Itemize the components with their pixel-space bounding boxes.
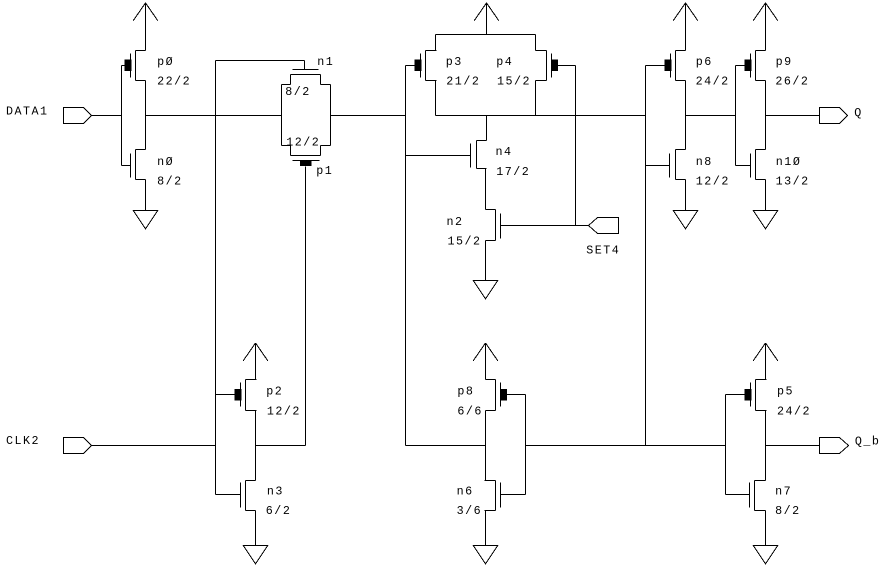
svg-text:12/2: 12/2 xyxy=(286,136,320,150)
power vdd p9 xyxy=(753,3,778,51)
ground n0 xyxy=(133,211,158,229)
svg-text:pØ: pØ xyxy=(157,55,174,69)
node left terminal of pass gate xyxy=(281,85,283,146)
transistor p4 xyxy=(536,51,576,81)
ground n2 xyxy=(473,281,498,299)
transistor n7 xyxy=(726,481,766,511)
power vdd p0 xyxy=(133,3,158,51)
svg-text:p6: p6 xyxy=(696,55,713,69)
transistor n10 xyxy=(736,150,766,180)
port CLK2 xyxy=(64,438,92,454)
svg-text:22/2: 22/2 xyxy=(157,75,191,89)
wire node d_b to pass gate xyxy=(146,115,282,117)
wire p0/n0 gate tie xyxy=(121,66,123,166)
wire CLK2 to clock line xyxy=(92,445,216,447)
svg-text:3/6: 3/6 xyxy=(457,504,483,518)
wire p9 drain to n10 drain xyxy=(765,81,767,150)
transistor p3 xyxy=(406,51,437,81)
svg-text:17/2: 17/2 xyxy=(496,165,530,179)
transistor p5 xyxy=(726,380,767,411)
wire p4 gate to SET4 xyxy=(575,66,577,226)
transistor n6 xyxy=(485,481,526,511)
wire vdd rail p3/p4 xyxy=(436,34,536,36)
svg-text:6/6: 6/6 xyxy=(457,404,483,418)
wire p4 drain to output rail xyxy=(535,81,537,116)
transistor n2 xyxy=(486,210,589,241)
svg-text:6/2: 6/2 xyxy=(266,504,292,518)
transistor n4 xyxy=(406,141,487,169)
transistor p6 xyxy=(646,51,686,81)
power vdd p6 xyxy=(673,3,698,51)
svg-text:p9: p9 xyxy=(776,55,793,69)
svg-text:p2: p2 xyxy=(266,385,283,399)
svg-text:nØ: nØ xyxy=(157,155,174,169)
svg-text:Q: Q xyxy=(854,106,863,120)
transistor n1 xyxy=(282,70,331,85)
svg-text:CLK2: CLK2 xyxy=(6,434,40,448)
wire Q_b output xyxy=(766,445,820,447)
wire p8 drain to n6 drain xyxy=(485,411,487,481)
wire n3 source to ground xyxy=(255,511,257,546)
transistor n8 xyxy=(646,150,686,180)
svg-text:26/2: 26/2 xyxy=(775,75,809,89)
svg-text:12/2: 12/2 xyxy=(267,404,301,418)
port DATA1 xyxy=(64,108,92,124)
svg-text:13/2: 13/2 xyxy=(776,175,810,189)
wire DATA1 to gates xyxy=(92,115,122,117)
wire n2 source to ground xyxy=(485,241,487,281)
svg-text:p8: p8 xyxy=(457,385,474,399)
wire feedback net to output inverters xyxy=(526,445,726,447)
power vdd p3/p4 xyxy=(474,3,499,35)
port Q_b xyxy=(820,438,849,454)
wire p2 drain to n3 drain (clk_b) xyxy=(255,411,257,481)
svg-text:8/2: 8/2 xyxy=(285,85,311,99)
wire n1 gate to CLK2 line xyxy=(216,61,305,70)
svg-text:SET4: SET4 xyxy=(586,243,620,257)
wire p5/n7 gate tie xyxy=(725,395,727,495)
svg-text:p5: p5 xyxy=(777,385,794,399)
svg-text:p3: p3 xyxy=(446,55,463,69)
wire n10 source to ground xyxy=(765,180,767,211)
wire n4 source to n2 drain xyxy=(485,169,487,210)
svg-text:n7: n7 xyxy=(775,484,792,498)
ground n3 xyxy=(243,546,268,564)
wire p6/n8 gate tie down to feedback net xyxy=(645,66,647,446)
transistor p2 xyxy=(216,380,257,411)
transistor p9 xyxy=(736,51,766,81)
wire n0 source to ground xyxy=(145,180,147,211)
transistor n3 xyxy=(216,481,256,511)
wire n6 source to ground xyxy=(485,511,487,546)
svg-text:p1: p1 xyxy=(316,164,333,178)
power vdd p2 xyxy=(243,343,268,380)
svg-text:DATA1: DATA1 xyxy=(6,105,49,119)
node X vertical wire xyxy=(405,66,407,446)
wire node X to keeper output xyxy=(406,445,486,447)
wire p1 gate to clk_b xyxy=(305,167,307,446)
svg-text:p4: p4 xyxy=(496,55,513,69)
ground n6 xyxy=(473,546,498,564)
wire n7 source to ground xyxy=(765,511,767,546)
wire p6/n8 output to p9/n10 input xyxy=(686,115,736,117)
svg-text:8/2: 8/2 xyxy=(157,175,183,189)
svg-text:n4: n4 xyxy=(496,145,513,159)
wire p3 drain to output rail xyxy=(435,81,437,116)
svg-text:n2: n2 xyxy=(447,215,464,229)
svg-text:n1Ø: n1Ø xyxy=(776,155,802,169)
svg-text:15/2: 15/2 xyxy=(497,75,531,89)
wire n8 source to ground xyxy=(685,180,687,211)
svg-text:15/2: 15/2 xyxy=(448,235,482,249)
wire NAND output rail xyxy=(436,115,646,117)
ground n7 xyxy=(753,546,778,564)
wire Q output xyxy=(766,115,820,117)
transistor n0 xyxy=(122,150,146,180)
svg-text:Q_b: Q_b xyxy=(855,435,881,449)
wire rail to n4 drain xyxy=(486,116,488,141)
svg-text:8/2: 8/2 xyxy=(775,504,801,518)
wire p6 drain to n8 drain xyxy=(685,81,687,150)
ground n8 xyxy=(673,211,698,229)
svg-text:24/2: 24/2 xyxy=(777,404,811,418)
svg-text:24/2: 24/2 xyxy=(696,75,730,89)
wire p4 source to vdd rail xyxy=(535,35,537,51)
power vdd p5 xyxy=(753,343,778,380)
svg-text:21/2: 21/2 xyxy=(446,75,480,89)
power vdd p8 xyxy=(473,343,498,380)
wire p5 drain to n7 drain xyxy=(765,411,767,481)
wire pass gate output (node X) xyxy=(331,115,406,117)
svg-text:n1: n1 xyxy=(317,55,334,69)
node right terminal of pass gate xyxy=(330,85,332,146)
wire clk_b to p1 gate xyxy=(256,445,306,447)
wire p8/n6 gate tie xyxy=(525,395,527,495)
wire p9/n10 gate tie xyxy=(735,66,737,166)
transistor p8 xyxy=(486,380,526,411)
wire p0 drain to n0 drain (node d_b) xyxy=(145,81,147,150)
transistor p0 xyxy=(122,51,146,81)
svg-text:n8: n8 xyxy=(696,155,713,169)
port Q xyxy=(820,108,848,124)
svg-text:n3: n3 xyxy=(267,484,284,498)
wire p3 source to vdd rail xyxy=(435,35,437,51)
svg-text:n6: n6 xyxy=(457,484,474,498)
svg-text:12/2: 12/2 xyxy=(696,175,730,189)
wire CLK2 vertical line xyxy=(215,61,217,495)
transistor p1 xyxy=(282,146,331,166)
ground n10 xyxy=(753,211,778,229)
port SET4 xyxy=(589,218,619,234)
